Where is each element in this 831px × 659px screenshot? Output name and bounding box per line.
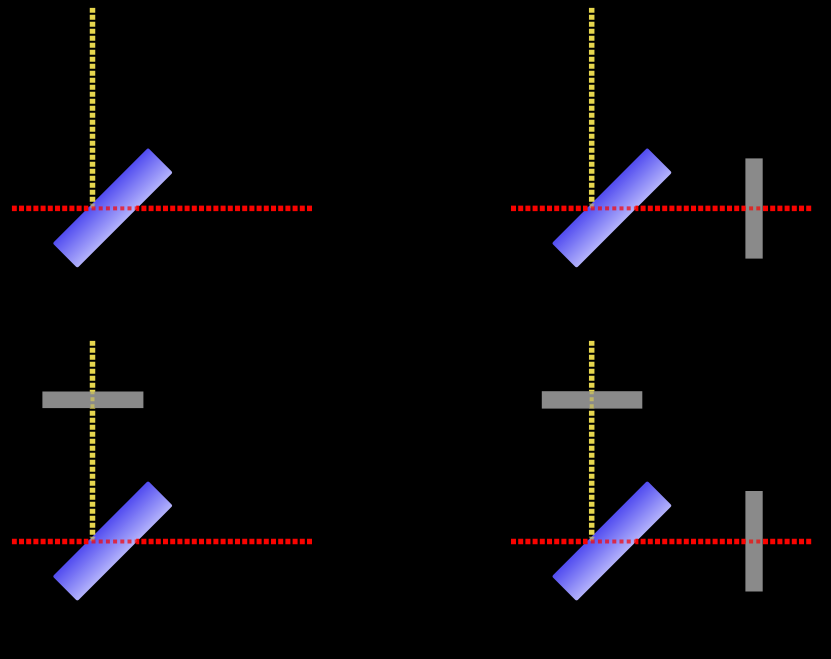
red emission beam panel 3 (12, 539, 313, 545)
yellow excitation beam panel 3 (90, 341, 96, 544)
red emission beam panel 1 (12, 206, 313, 212)
emission filter (gray, vertical) panel 2 (745, 158, 762, 258)
red emission beam panel 2 (511, 206, 812, 212)
yellow excitation beam panel 4 (589, 341, 595, 544)
red emission beam panel 4 (511, 539, 812, 545)
dichroic mirror panel 2 (552, 148, 672, 268)
excitation filter (gray, horizontal) panel 4 (542, 391, 643, 408)
dichroic mirror panel 1 (53, 148, 173, 268)
dichroic mirror panel 4 (552, 481, 672, 601)
dichroic mirror panel 3 (53, 481, 173, 601)
yellow excitation beam panel 1 (90, 8, 96, 211)
yellow excitation beam panel 2 (589, 8, 595, 211)
excitation filter (gray, horizontal) panel 3 (42, 392, 143, 409)
emission filter (gray, vertical) panel 4 (745, 491, 762, 592)
